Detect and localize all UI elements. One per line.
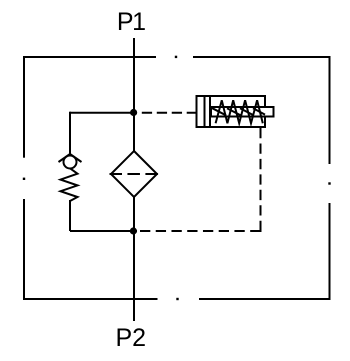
- compensator U1 cylinder body: [197, 96, 266, 127]
- orifice FC1 adjustment dashed line: [110, 173, 159, 175]
- wire orifice bottom down to P2: [133, 197, 135, 321]
- check valve CV1 ball: [64, 156, 77, 169]
- wire check valve drop: [69, 112, 71, 154]
- svg-text:P1: P1: [117, 8, 145, 36]
- pilot line corner piece: [256, 226, 261, 231]
- node A junction dot: [130, 109, 137, 116]
- pilot line bottom horizontal to node B (dashed): [140, 230, 261, 232]
- enclosure boundary bottom side (dash-dot): [24, 298, 330, 300]
- enclosure boundary top side (dash-dot): [24, 56, 330, 58]
- wire branch bottom horizontal (spring leg to node B): [70, 230, 137, 232]
- svg-text:P2: P2: [116, 324, 147, 352]
- pilot line compensator down (dashed): [260, 128, 262, 231]
- compensator U1 piston line 1: [204, 96, 206, 127]
- node B junction dot: [130, 227, 137, 234]
- pilot line node A to compensator (dashed): [142, 112, 197, 114]
- spring S1 (check valve spring): [61, 168, 78, 201]
- enclosure boundary left side (dash-dot): [23, 56, 25, 300]
- compensator U1 piston line 2: [209, 96, 211, 127]
- orifice FC1 diamond body: [111, 151, 157, 197]
- wire branch top horizontal (node A to check valve): [70, 112, 137, 114]
- compensator U1 piston rod: [211, 107, 274, 117]
- wire P1 vertical (P1 down to orifice top): [133, 38, 135, 152]
- compensator U1 spring coil: [216, 100, 263, 123]
- enclosure boundary right side (dash-dot): [328, 56, 330, 300]
- check valve CV1 seat: [59, 154, 82, 162]
- wire spring bottom drop: [69, 200, 71, 231]
